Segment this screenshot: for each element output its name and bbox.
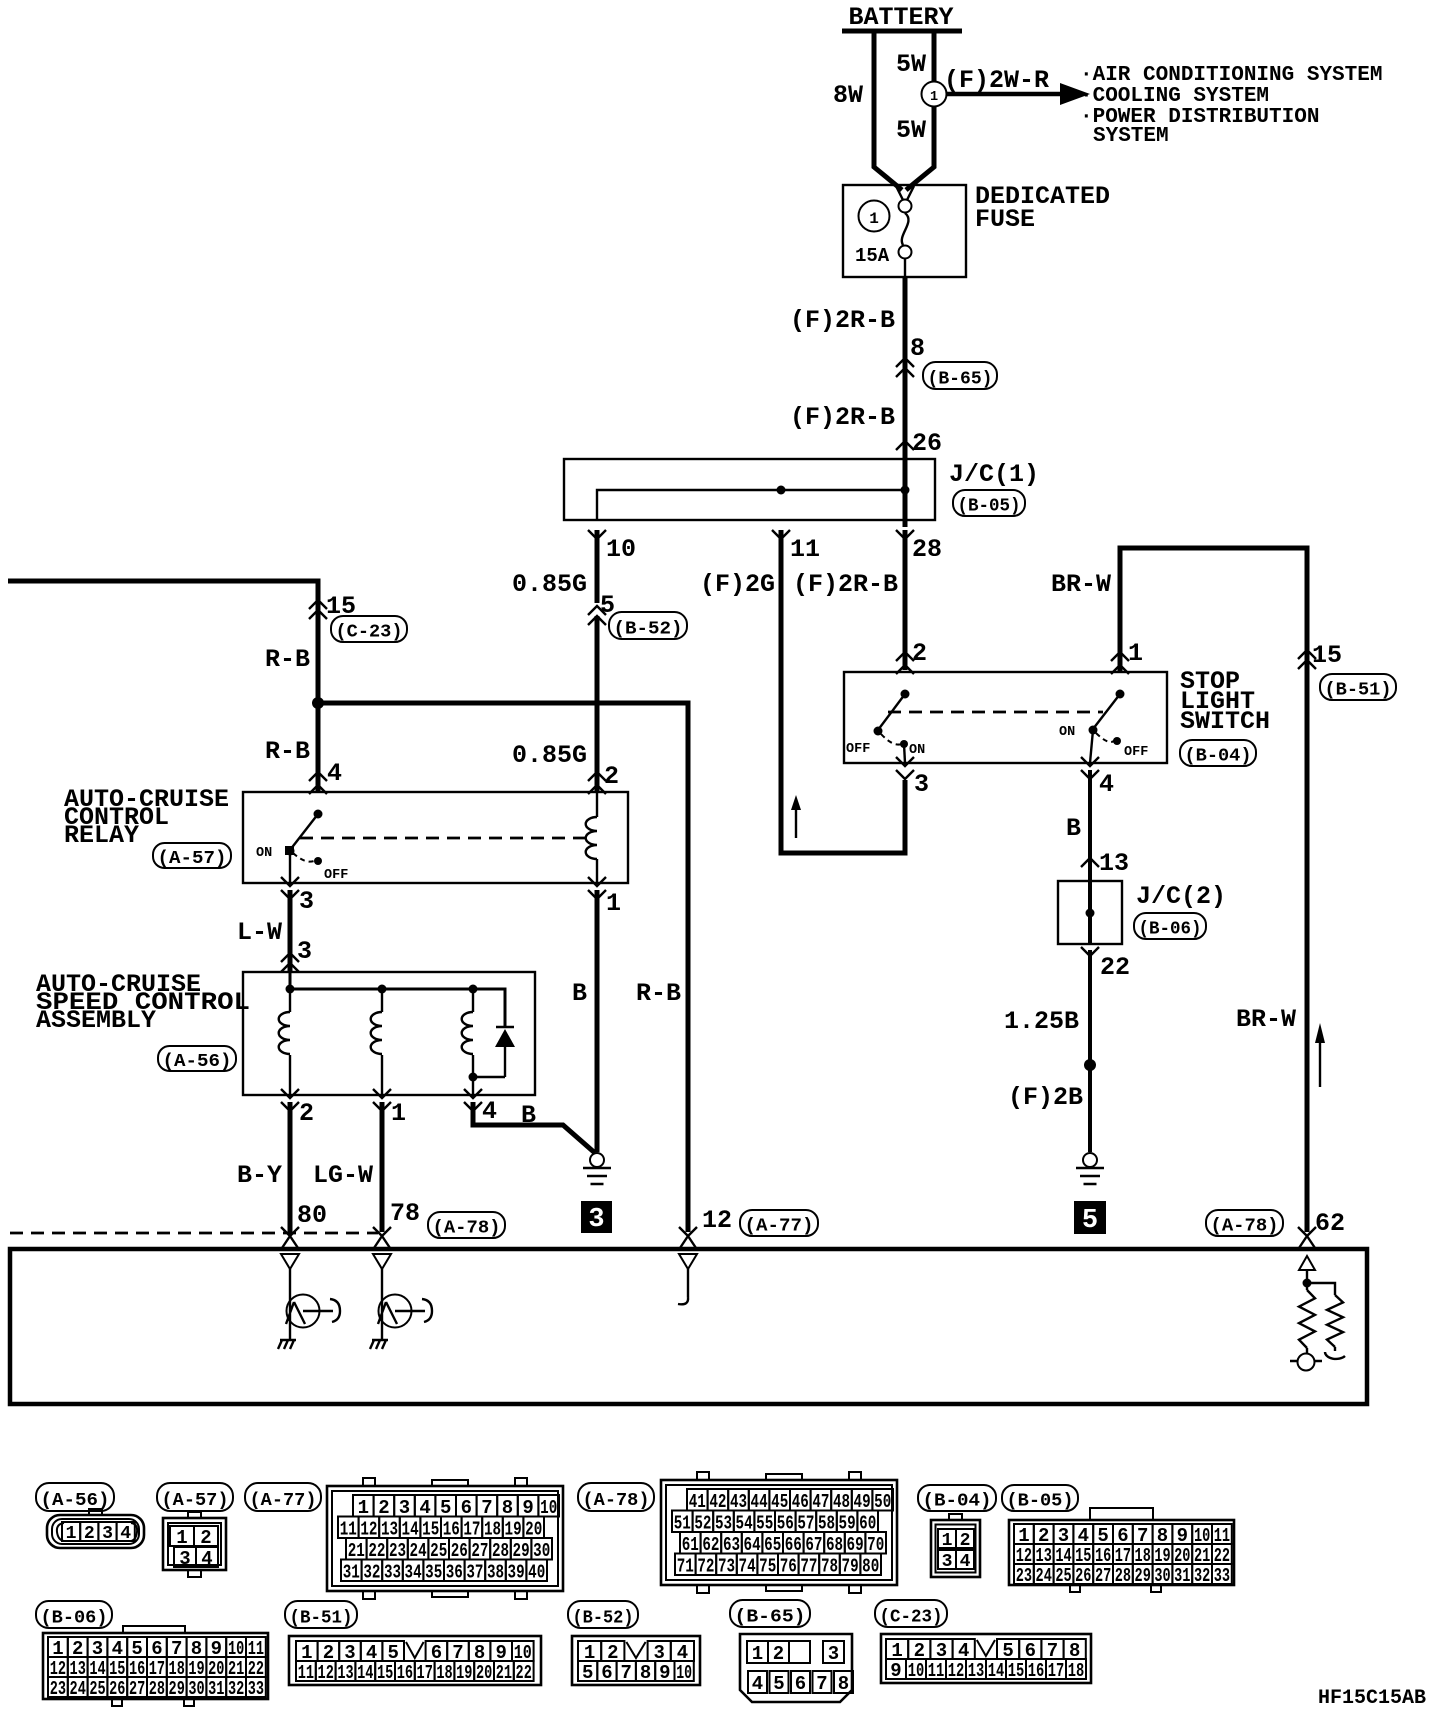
svg-text:(B-65): (B-65) xyxy=(928,369,993,389)
svg-text:3: 3 xyxy=(179,1548,190,1570)
svg-text:(A-77): (A-77) xyxy=(745,1217,814,1237)
svg-text:(A-57): (A-57) xyxy=(158,849,227,869)
connector B-51 body xyxy=(289,1636,541,1685)
svg-text:J/C(1): J/C(1) xyxy=(949,460,1039,489)
label A-78 right xyxy=(1206,1210,1283,1237)
svg-text:(F)2R-B: (F)2R-B xyxy=(790,403,895,432)
svg-text:9: 9 xyxy=(890,1660,901,1682)
svg-text:1: 1 xyxy=(752,1643,763,1665)
svg-text:OFF: OFF xyxy=(1124,745,1148,760)
pin 78 terminal triangle xyxy=(373,1254,391,1296)
svg-text:75: 75 xyxy=(759,1555,776,1577)
wire R-B from C-23 horizontal xyxy=(8,581,356,701)
svg-text:0.85G: 0.85G xyxy=(512,570,587,599)
relay pin 1 exit xyxy=(588,877,621,918)
wire R-B down to relay pin 4 xyxy=(265,703,342,791)
svg-text:15: 15 xyxy=(1312,641,1342,670)
svg-text:22: 22 xyxy=(1100,953,1130,982)
ground ref black square 3 xyxy=(581,1201,612,1235)
fuse 15A element xyxy=(855,186,914,277)
svg-text:36: 36 xyxy=(446,1561,463,1583)
pin 80 terminal triangle xyxy=(281,1254,299,1296)
svg-text:24: 24 xyxy=(1036,1565,1052,1587)
current direction arrow up xyxy=(791,795,801,838)
svg-text:32: 32 xyxy=(1194,1565,1210,1587)
svg-text:4: 4 xyxy=(752,1673,763,1695)
wire B assembly pin4 to ground xyxy=(473,1102,595,1153)
svg-text:80: 80 xyxy=(862,1555,879,1577)
svg-text:20: 20 xyxy=(476,1662,492,1684)
svg-text:28: 28 xyxy=(1115,1565,1131,1587)
svg-text:ON: ON xyxy=(909,743,925,758)
svg-text:8: 8 xyxy=(838,1673,849,1695)
wire 0.85G pin10 to B-52 xyxy=(512,530,615,620)
svg-text:23: 23 xyxy=(50,1678,66,1700)
assembly coil 1 xyxy=(279,989,290,1095)
svg-text:8W: 8W xyxy=(833,81,863,110)
svg-text:9: 9 xyxy=(659,1662,670,1684)
svg-text:11: 11 xyxy=(928,1660,945,1682)
svg-text:34: 34 xyxy=(405,1561,422,1583)
svg-text:77: 77 xyxy=(800,1555,817,1577)
svg-text:28: 28 xyxy=(149,1678,165,1700)
assembly pin 4 exit xyxy=(464,1089,536,1130)
svg-text:31: 31 xyxy=(208,1678,224,1700)
svg-text:4: 4 xyxy=(482,1097,497,1126)
svg-text:12: 12 xyxy=(318,1662,334,1684)
svg-text:1: 1 xyxy=(606,889,621,918)
svg-text:1: 1 xyxy=(1128,639,1143,668)
svg-text:10: 10 xyxy=(908,1660,925,1682)
svg-text:1: 1 xyxy=(869,210,879,228)
label A-56 xyxy=(158,1046,236,1072)
svg-text:14: 14 xyxy=(988,1660,1005,1682)
svg-text:(A-57): (A-57) xyxy=(162,1491,229,1511)
svg-text:4: 4 xyxy=(1099,770,1114,799)
connector B-65 body xyxy=(740,1634,853,1702)
pin 12 hook terminal xyxy=(678,1297,688,1304)
svg-text:(B-04): (B-04) xyxy=(923,1492,992,1512)
svg-text:2: 2 xyxy=(84,1524,95,1544)
relay switch contact xyxy=(256,810,348,884)
svg-text:17: 17 xyxy=(1048,1660,1065,1682)
connector crossing B-65 xyxy=(896,358,997,389)
svg-text:40: 40 xyxy=(528,1561,545,1583)
svg-text:39: 39 xyxy=(508,1561,525,1583)
svg-text:76: 76 xyxy=(780,1555,797,1577)
assembly coil 2 xyxy=(371,989,382,1095)
svg-text:1: 1 xyxy=(930,90,938,105)
svg-text:22: 22 xyxy=(516,1662,532,1684)
connector crossing C-23 xyxy=(309,600,407,643)
auto-cruise control relay box xyxy=(64,785,628,883)
svg-text:24: 24 xyxy=(70,1678,86,1700)
svg-text:18: 18 xyxy=(436,1662,452,1684)
label B-06 xyxy=(1134,913,1206,940)
motor actuator right xyxy=(378,1295,432,1341)
svg-text:6: 6 xyxy=(601,1662,612,1684)
junction block J/C(2) xyxy=(1058,881,1226,944)
wire B-Y assembly pin2 to connector 80 xyxy=(237,1102,327,1232)
label A-77 bottom xyxy=(245,1483,321,1511)
svg-text:30: 30 xyxy=(1154,1565,1170,1587)
wire (F)2R-B pin28 down xyxy=(793,530,927,670)
ground hatch right motor xyxy=(370,1340,388,1349)
svg-text:7: 7 xyxy=(621,1662,632,1684)
assembly pin 1 exit xyxy=(373,1089,406,1128)
svg-text:(B-04): (B-04) xyxy=(1185,747,1252,767)
svg-text:4: 4 xyxy=(120,1524,131,1544)
svg-text:4: 4 xyxy=(201,1548,212,1570)
svg-text:OFF: OFF xyxy=(846,742,870,757)
svg-text:3: 3 xyxy=(914,770,929,799)
connector pin 78 into box xyxy=(373,1227,391,1248)
svg-text:(F)2R-B: (F)2R-B xyxy=(790,306,895,335)
switch right contact xyxy=(1059,690,1148,764)
junction node R-B xyxy=(312,697,324,709)
svg-text:12: 12 xyxy=(948,1660,965,1682)
svg-text:5W: 5W xyxy=(896,116,926,145)
wire BR-W to connector 62 xyxy=(1236,641,1345,1238)
svg-text:13: 13 xyxy=(1099,849,1129,878)
svg-text:1: 1 xyxy=(942,1531,953,1551)
svg-text:18: 18 xyxy=(1068,1660,1085,1682)
label B-04 xyxy=(1180,740,1256,767)
svg-text:3: 3 xyxy=(588,1205,604,1235)
relay mechanical link dashed xyxy=(300,837,588,840)
relay coil xyxy=(586,792,597,883)
svg-text:15: 15 xyxy=(1008,1660,1025,1682)
svg-text:72: 72 xyxy=(697,1555,714,1577)
J/C(1) internal bus xyxy=(597,486,910,521)
svg-text:(B-51): (B-51) xyxy=(1325,681,1392,701)
svg-text:2: 2 xyxy=(773,1643,784,1665)
svg-text:30: 30 xyxy=(188,1678,204,1700)
svg-text:37: 37 xyxy=(466,1561,483,1583)
wire battery left lead 8W xyxy=(833,31,902,190)
svg-text:(B-05): (B-05) xyxy=(1007,1492,1074,1512)
svg-text:2: 2 xyxy=(912,639,927,668)
svg-text:28: 28 xyxy=(912,535,942,564)
svg-text:3: 3 xyxy=(942,1552,953,1572)
svg-text:(A-78): (A-78) xyxy=(583,1491,650,1511)
svg-text:31: 31 xyxy=(343,1561,360,1583)
body / ground unit box xyxy=(10,1249,1367,1404)
svg-text:HF15C15AB: HF15C15AB xyxy=(1318,1687,1426,1710)
switch pin 4 exit xyxy=(1081,757,1114,799)
wire B switch pin4 to J/C(2) xyxy=(1066,770,1129,881)
svg-text:1.25B: 1.25B xyxy=(1004,1007,1079,1036)
label B-06 bottom xyxy=(36,1601,112,1628)
wire battery right lead 5W xyxy=(896,31,934,190)
svg-text:(C-23): (C-23) xyxy=(336,623,403,643)
svg-text:13: 13 xyxy=(337,1662,353,1684)
svg-text:32: 32 xyxy=(363,1561,380,1583)
svg-text:16: 16 xyxy=(397,1662,413,1684)
connector B-04 body xyxy=(931,1514,980,1577)
wire R-B to connector 12 xyxy=(636,979,732,1235)
svg-text:3: 3 xyxy=(102,1524,113,1544)
svg-text:33: 33 xyxy=(1214,1565,1230,1587)
svg-text:(B-52): (B-52) xyxy=(614,619,683,639)
wire (F)2R-B B-65 to J/C(1) xyxy=(790,403,942,458)
wire (F)2G pin11 down xyxy=(700,530,781,851)
label A-77 bottom xyxy=(740,1210,818,1237)
hook terminal resistor 2 xyxy=(1325,1352,1345,1359)
connector B-05 body xyxy=(1009,1508,1234,1592)
connector pin 12 into box xyxy=(679,1227,697,1248)
svg-text:(B-52): (B-52) xyxy=(573,1608,634,1628)
J/C(1) pin 11 exit xyxy=(772,530,820,564)
J/C(2) pin 22 exit xyxy=(1081,947,1130,982)
svg-text:BATTERY: BATTERY xyxy=(848,3,953,32)
stop light switch box xyxy=(844,667,1270,763)
wire bottom link (F)2G to stop light switch pin 3 xyxy=(781,780,905,853)
label B-51 bottom xyxy=(285,1601,357,1628)
switch pin 2 entry chevrons xyxy=(896,652,914,674)
connector A-56 body xyxy=(47,1509,144,1548)
svg-text:ASSEMBLY: ASSEMBLY xyxy=(36,1006,156,1035)
ground for 1.25B wire xyxy=(1076,1153,1104,1184)
svg-text:ON: ON xyxy=(256,846,272,861)
svg-text:(A-78): (A-78) xyxy=(1211,1217,1279,1237)
svg-text:L-W: L-W xyxy=(237,918,282,947)
wire through J/C(2) xyxy=(1086,881,1095,944)
relay pin 2 entry chevrons xyxy=(588,772,606,794)
svg-text:71: 71 xyxy=(677,1555,694,1577)
svg-text:4: 4 xyxy=(327,759,342,788)
label B-05 xyxy=(953,490,1025,517)
svg-text:27: 27 xyxy=(1095,1565,1111,1587)
connector A-78 body xyxy=(661,1472,897,1593)
fusible link No.1 circle xyxy=(922,82,947,107)
svg-text:BR-W: BR-W xyxy=(1051,570,1111,599)
svg-text:2: 2 xyxy=(960,1531,971,1551)
svg-text:11: 11 xyxy=(298,1662,314,1684)
svg-text:13: 13 xyxy=(968,1660,985,1682)
svg-text:23: 23 xyxy=(1016,1565,1032,1587)
connector B-06 body xyxy=(43,1626,268,1706)
label B-04 bottom xyxy=(918,1485,996,1512)
wire 0.85G B-52 to relay pin 2 xyxy=(512,616,619,791)
svg-text:(A-78): (A-78) xyxy=(433,1219,501,1239)
assembly internal bus xyxy=(286,972,506,1026)
label A-78 left xyxy=(428,1212,505,1239)
svg-text:19: 19 xyxy=(456,1662,472,1684)
svg-text:10: 10 xyxy=(606,535,636,564)
svg-text:SWITCH: SWITCH xyxy=(1180,707,1270,736)
connector B-52 body xyxy=(572,1636,700,1685)
switch pin 3 exit xyxy=(896,757,929,799)
wire R-B branch to right R-B column xyxy=(318,703,688,1232)
svg-text:B: B xyxy=(572,979,587,1008)
svg-text:0.85G: 0.85G xyxy=(512,741,587,770)
label B-52 bottom xyxy=(568,1601,638,1628)
switch left contact xyxy=(846,690,925,764)
svg-text:R-B: R-B xyxy=(265,737,310,766)
auto-cruise speed control assembly box xyxy=(36,970,535,1095)
connector pin 62 into box xyxy=(1298,1227,1316,1248)
svg-text:74: 74 xyxy=(739,1555,756,1577)
connector crossing B-52 xyxy=(588,606,687,639)
svg-text:3: 3 xyxy=(299,887,314,916)
svg-text:(B-51): (B-51) xyxy=(290,1608,353,1628)
dashed harness boundary xyxy=(10,1232,378,1235)
connector A-77 body xyxy=(327,1478,563,1599)
svg-text:26: 26 xyxy=(912,429,942,458)
svg-text:11: 11 xyxy=(790,535,820,564)
wire B relay pin1 to ground xyxy=(572,890,597,1152)
svg-text:7: 7 xyxy=(816,1673,827,1695)
label C-23 bottom xyxy=(875,1600,947,1627)
relay pin 3 exit xyxy=(281,851,314,916)
resistor 2 branch xyxy=(1307,1283,1343,1351)
svg-text:6: 6 xyxy=(795,1673,806,1695)
svg-text:(F)2B: (F)2B xyxy=(1008,1083,1083,1112)
svg-text:33: 33 xyxy=(248,1678,264,1700)
svg-text:(A-77): (A-77) xyxy=(250,1491,317,1511)
terminal circle resistor 1 xyxy=(1290,1354,1322,1371)
svg-text:38: 38 xyxy=(487,1561,504,1583)
svg-text:(A-56): (A-56) xyxy=(163,1052,232,1072)
node resistor junction xyxy=(1303,1279,1312,1288)
svg-text:5: 5 xyxy=(582,1662,593,1684)
svg-text:8: 8 xyxy=(640,1662,651,1684)
svg-text:J/C(2): J/C(2) xyxy=(1136,882,1226,911)
label A-56 bottom xyxy=(36,1483,114,1511)
svg-text:29: 29 xyxy=(1135,1565,1151,1587)
svg-text:29: 29 xyxy=(169,1678,185,1700)
ground for B wires xyxy=(583,1153,611,1184)
wire through J/C(1) pin 26 to 28 xyxy=(896,443,942,564)
svg-text:5W: 5W xyxy=(896,50,926,79)
svg-text:27: 27 xyxy=(129,1678,145,1700)
svg-text:(F)2G: (F)2G xyxy=(700,570,775,599)
svg-text:LG-W: LG-W xyxy=(313,1161,373,1190)
svg-text:3: 3 xyxy=(828,1643,839,1665)
svg-text:8: 8 xyxy=(910,334,925,363)
svg-text:(C-23): (C-23) xyxy=(880,1607,943,1627)
svg-text:4: 4 xyxy=(960,1552,971,1572)
switch pin 1 entry chevrons xyxy=(1111,652,1129,674)
svg-text:B: B xyxy=(1066,814,1081,843)
svg-text:26: 26 xyxy=(1075,1565,1091,1587)
svg-text:·COOLING SYSTEM: ·COOLING SYSTEM xyxy=(1080,85,1269,108)
label A-78 bottom xyxy=(578,1483,654,1511)
svg-text:ON: ON xyxy=(1059,725,1075,740)
svg-text:1: 1 xyxy=(391,1099,406,1128)
svg-text:BR-W: BR-W xyxy=(1236,1005,1296,1034)
svg-text:15: 15 xyxy=(377,1662,393,1684)
svg-text:14: 14 xyxy=(357,1662,373,1684)
svg-text:(F)2R-B: (F)2R-B xyxy=(793,570,898,599)
svg-text:78: 78 xyxy=(390,1199,420,1228)
svg-text:FUSE: FUSE xyxy=(975,205,1035,234)
svg-text:78: 78 xyxy=(821,1555,838,1577)
svg-text:(B-06): (B-06) xyxy=(41,1608,108,1628)
svg-text:OFF: OFF xyxy=(324,868,348,883)
connector A-57 body xyxy=(163,1512,226,1577)
label B-65 bottom xyxy=(730,1600,810,1627)
svg-text:(F)2W-R: (F)2W-R xyxy=(944,66,1049,95)
junction block J/C(1) xyxy=(564,459,1039,520)
current direction arrow up right xyxy=(1315,1023,1325,1087)
fuse No.1 circle xyxy=(859,201,890,232)
svg-text:2: 2 xyxy=(604,762,619,791)
label B-05 bottom xyxy=(1002,1485,1078,1512)
svg-text:25: 25 xyxy=(89,1678,105,1700)
svg-text:SYSTEM: SYSTEM xyxy=(1093,125,1169,148)
svg-text:16: 16 xyxy=(1028,1660,1045,1682)
svg-text:35: 35 xyxy=(425,1561,442,1583)
wire LG-W assembly pin1 to connector 78 xyxy=(313,1102,420,1232)
svg-text:2: 2 xyxy=(200,1527,211,1549)
connector crossing B-51 xyxy=(1298,650,1396,701)
svg-text:21: 21 xyxy=(496,1662,512,1684)
label A-57 bottom xyxy=(157,1483,233,1511)
assembly coil 3 xyxy=(462,989,473,1095)
wire BR-W top link xyxy=(1051,548,1307,672)
svg-text:2: 2 xyxy=(299,1099,314,1128)
wire (F)2R-B fuse to B-65 xyxy=(790,277,925,443)
svg-text:RELAY: RELAY xyxy=(64,821,139,850)
svg-text:5: 5 xyxy=(1082,1206,1098,1236)
svg-text:33: 33 xyxy=(384,1561,401,1583)
connector pin 80 into box xyxy=(281,1227,299,1248)
node list: air conditioning / cooling / power distribution xyxy=(1080,64,1382,148)
svg-text:1: 1 xyxy=(176,1527,187,1549)
label A-57 xyxy=(153,843,231,869)
wire L-W relay pin3 to assembly pin 3 xyxy=(237,890,312,972)
motor actuator left xyxy=(286,1295,340,1341)
J/C(1) pin 10 exit xyxy=(588,530,636,564)
resistor 1 xyxy=(1299,1283,1315,1353)
svg-text:5: 5 xyxy=(773,1673,784,1695)
svg-text:15A: 15A xyxy=(855,245,890,267)
svg-text:25: 25 xyxy=(1055,1565,1071,1587)
battery xyxy=(842,3,962,32)
diode xyxy=(469,1027,516,1082)
wire 1.25B to ground xyxy=(1004,950,1096,1152)
svg-text:32: 32 xyxy=(228,1678,244,1700)
switch mechanical link dashed xyxy=(888,711,1103,714)
svg-text:(B-05): (B-05) xyxy=(958,497,1021,517)
dedicated fuse box xyxy=(843,182,1110,277)
svg-text:79: 79 xyxy=(842,1555,859,1577)
svg-text:80: 80 xyxy=(297,1201,327,1230)
ground ref black square 5 xyxy=(1074,1201,1106,1236)
svg-text:26: 26 xyxy=(109,1678,125,1700)
svg-text:1: 1 xyxy=(66,1524,77,1544)
svg-text:73: 73 xyxy=(718,1555,735,1577)
svg-text:10: 10 xyxy=(676,1662,692,1684)
svg-text:(B-65): (B-65) xyxy=(735,1607,806,1627)
pin 62 terminal triangle xyxy=(1299,1256,1315,1281)
svg-text:R-B: R-B xyxy=(636,979,681,1008)
svg-text:R-B: R-B xyxy=(265,645,310,674)
wire (F)2W-R arrow to other systems xyxy=(944,66,1090,105)
ground hatch left motor xyxy=(278,1340,296,1349)
svg-text:12: 12 xyxy=(702,1206,732,1235)
svg-text:31: 31 xyxy=(1174,1565,1190,1587)
svg-text:B-Y: B-Y xyxy=(237,1161,282,1190)
svg-text:62: 62 xyxy=(1315,1209,1345,1238)
svg-text:(B-06): (B-06) xyxy=(1139,920,1202,940)
svg-text:·AIR CONDITIONING SYSTEM: ·AIR CONDITIONING SYSTEM xyxy=(1080,64,1382,87)
pin 12 terminal triangle xyxy=(679,1254,697,1297)
assembly pin 2 exit xyxy=(281,1089,314,1128)
connector C-23 body xyxy=(881,1634,1091,1683)
